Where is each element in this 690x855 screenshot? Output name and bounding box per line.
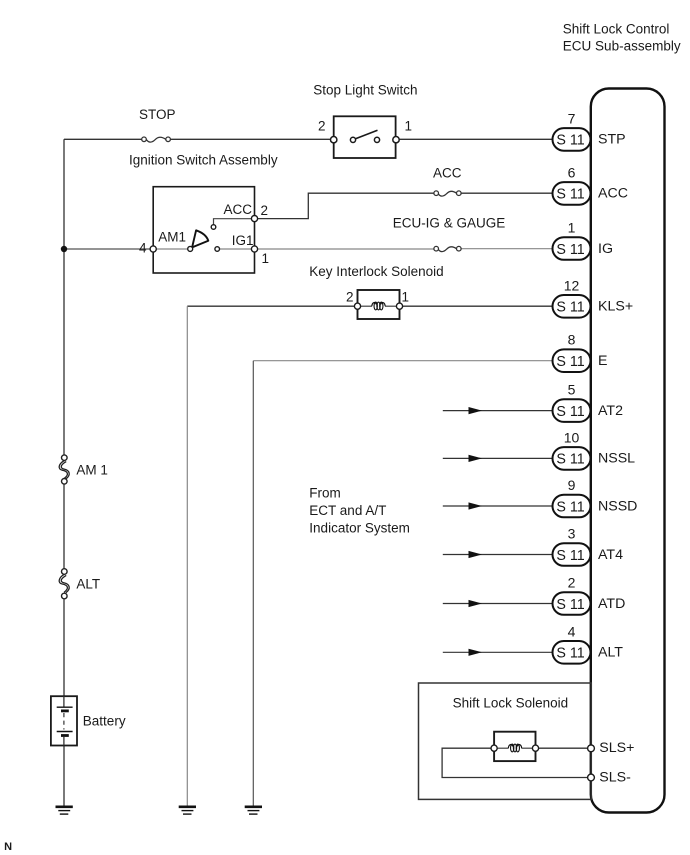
svg-text:SLS-: SLS- xyxy=(599,769,631,785)
svg-text:S 11: S 11 xyxy=(556,187,584,203)
svg-text:8: 8 xyxy=(568,332,576,348)
svg-text:ALT: ALT xyxy=(76,576,100,591)
svg-text:7: 7 xyxy=(568,110,576,126)
svg-text:9: 9 xyxy=(568,477,576,493)
svg-text:12: 12 xyxy=(564,277,580,293)
svg-text:Key Interlock Solenoid: Key Interlock Solenoid xyxy=(309,264,443,279)
svg-text:S 11: S 11 xyxy=(556,242,584,258)
svg-text:IG: IG xyxy=(598,241,613,257)
svg-text:AT4: AT4 xyxy=(598,547,623,563)
svg-text:E: E xyxy=(598,353,607,369)
svg-text:ATD: ATD xyxy=(598,596,625,612)
svg-text:IG1: IG1 xyxy=(232,233,254,248)
svg-text:N: N xyxy=(4,841,12,853)
svg-text:2: 2 xyxy=(568,575,576,591)
svg-text:5: 5 xyxy=(568,382,576,398)
svg-text:2: 2 xyxy=(346,290,354,305)
svg-text:ACC: ACC xyxy=(598,186,628,202)
svg-text:ACC: ACC xyxy=(433,165,462,180)
svg-text:S 11: S 11 xyxy=(556,133,584,149)
svg-text:Battery: Battery xyxy=(83,714,126,729)
svg-text:2: 2 xyxy=(261,203,269,218)
svg-text:1: 1 xyxy=(262,251,270,266)
svg-text:Stop Light Switch: Stop Light Switch xyxy=(313,82,417,97)
svg-text:2: 2 xyxy=(318,118,326,133)
svg-text:S 11: S 11 xyxy=(556,548,584,564)
svg-text:1: 1 xyxy=(402,290,410,305)
svg-text:S 11: S 11 xyxy=(556,499,584,515)
svg-text:STOP: STOP xyxy=(139,107,176,122)
svg-text:1: 1 xyxy=(568,220,576,236)
svg-text:AM 1: AM 1 xyxy=(76,463,108,478)
svg-text:SLS+: SLS+ xyxy=(599,740,634,756)
svg-text:6: 6 xyxy=(568,164,576,180)
svg-text:Shift Lock Control: Shift Lock Control xyxy=(563,22,670,37)
svg-text:S 11: S 11 xyxy=(556,404,584,420)
svg-text:NSSD: NSSD xyxy=(598,498,637,514)
svg-text:ECU-IG & GAUGE: ECU-IG & GAUGE xyxy=(393,215,506,230)
svg-text:3: 3 xyxy=(568,526,576,542)
svg-text:Indicator System: Indicator System xyxy=(309,520,410,535)
svg-text:From: From xyxy=(309,486,341,501)
svg-text:ECT and A/T: ECT and A/T xyxy=(309,503,386,518)
svg-text:S 11: S 11 xyxy=(556,646,584,662)
svg-text:S 11: S 11 xyxy=(556,452,584,468)
svg-text:Ignition Switch Assembly: Ignition Switch Assembly xyxy=(129,152,278,167)
svg-text:Shift Lock Solenoid: Shift Lock Solenoid xyxy=(453,696,569,711)
svg-text:S 11: S 11 xyxy=(556,597,584,613)
svg-text:NSSL: NSSL xyxy=(598,451,635,467)
svg-text:AT2: AT2 xyxy=(598,403,623,419)
svg-text:1: 1 xyxy=(405,118,413,133)
svg-text:ACC: ACC xyxy=(224,202,253,217)
svg-text:4: 4 xyxy=(139,241,147,256)
svg-text:4: 4 xyxy=(568,623,576,639)
svg-text:S 11: S 11 xyxy=(556,300,584,316)
svg-text:STP: STP xyxy=(598,132,626,148)
svg-text:AM1: AM1 xyxy=(158,229,186,244)
svg-text:KLS+: KLS+ xyxy=(598,299,633,315)
svg-text:S 11: S 11 xyxy=(556,354,584,370)
svg-text:ALT: ALT xyxy=(598,645,623,661)
svg-text:ECU Sub-assembly: ECU Sub-assembly xyxy=(563,38,681,53)
svg-text:10: 10 xyxy=(564,429,580,445)
